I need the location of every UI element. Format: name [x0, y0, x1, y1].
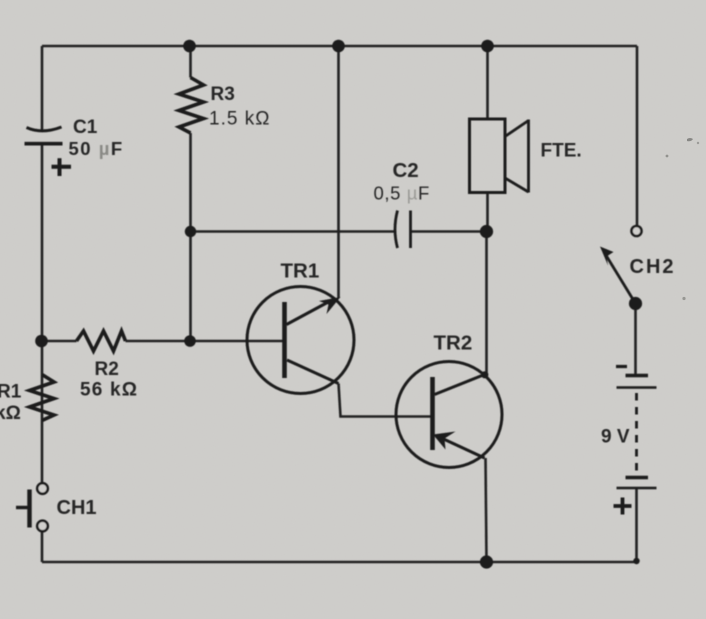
svg-text:TR1: TR1 [281, 260, 320, 283]
svg-text:CH1: CH1 [57, 497, 97, 519]
svg-text:56 kΩ: 56 kΩ [80, 380, 138, 401]
svg-text:50 µF: 50 µF [69, 138, 124, 159]
svg-text:CH2: CH2 [630, 256, 676, 278]
svg-text:C1: C1 [73, 117, 98, 138]
svg-text:R2: R2 [95, 359, 119, 380]
svg-text:R1: R1 [0, 382, 22, 403]
svg-text:FTE.: FTE. [541, 141, 582, 162]
svg-text:TR2: TR2 [434, 332, 473, 355]
svg-text:9 V: 9 V [601, 427, 630, 448]
svg-text:0,5 µF: 0,5 µF [374, 183, 430, 204]
svg-text:kΩ: kΩ [0, 403, 21, 424]
svg-text:R3: R3 [211, 84, 235, 105]
svg-text:1.5 kΩ: 1.5 kΩ [209, 109, 270, 130]
svg-text:C2: C2 [393, 159, 419, 182]
